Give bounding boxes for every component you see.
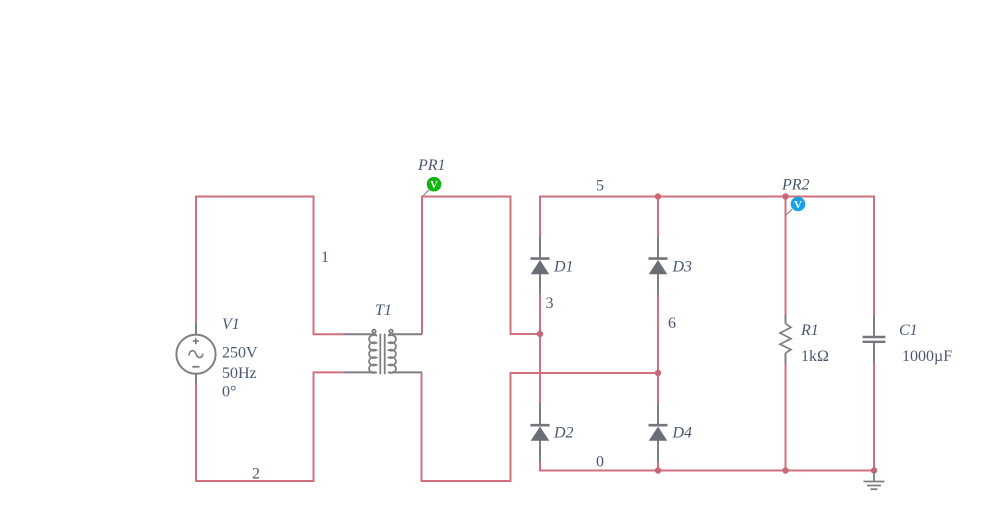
junction node 5 at D3 dot [655, 193, 661, 199]
wire R1 branch lower (785.5,363)-(785.5,470.5) [785, 363, 787, 471]
svg-text:1kΩ: 1kΩ [801, 348, 829, 365]
wire into node 3 (510.5,334)-(540,334) [510, 333, 541, 335]
svg-text:PR1: PR1 [417, 157, 446, 174]
diode D2 [531, 403, 550, 463]
wire secondary top horizontal (422,196.5)-(510.5,196.5) [421, 196, 511, 198]
wire top rail node 5 (540,196.5)-(874,196.5) [540, 196, 874, 198]
svg-text:D2: D2 [553, 425, 574, 442]
wire from transformer primary bottom (313.5,372.4)-(344,372.4) [313, 371, 345, 373]
svg-text:V: V [794, 199, 802, 211]
junction node 5 at R1 dot [782, 193, 788, 199]
svg-text:V1: V1 [222, 316, 240, 333]
svg-text:T1: T1 [375, 302, 392, 319]
wire secondary bottom vertical (421.5,372.4)-(421.5,481) [421, 372, 423, 482]
svg-text:5: 5 [596, 178, 604, 195]
capacitor C1 [863, 315, 886, 363]
wire primary loop right vertical (313.5,196.5)-(313.5,334.2) [313, 196, 315, 335]
svg-text:C1: C1 [899, 322, 918, 339]
wire D3 branch top (658,196.5)-(658,236) [657, 196, 659, 237]
diode D4 [649, 403, 668, 463]
svg-text:0: 0 [596, 454, 604, 471]
svg-text:D4: D4 [672, 425, 693, 442]
junction node 0 at R1 dot [782, 467, 788, 473]
wire secondary right vertical down (510.5,196.5)-(510.5,334) [510, 196, 512, 335]
svg-text:PR2: PR2 [781, 177, 810, 194]
ground [864, 471, 885, 490]
junction node 6 dot [655, 370, 661, 376]
wire secondary top lead vertical (422,196.5)-(422,334.2) [421, 196, 423, 335]
wire D3 to node6 (658,294)-(658,373) [657, 294, 659, 374]
wire secondary up vertical (510.5,481)-(510.5,373) [510, 373, 512, 482]
wire C1 branch lower (874,363)-(874,470.5) [873, 363, 875, 471]
diode D3 [649, 236, 668, 295]
svg-text:1: 1 [321, 249, 329, 266]
junction node 3 dot [537, 331, 543, 337]
svg-text:3: 3 [546, 295, 554, 312]
svg-text:6: 6 [668, 315, 676, 332]
transformer T1 [344, 330, 422, 375]
svg-text:D1: D1 [553, 259, 574, 276]
wire to transformer primary top (313.5,334.2)-(344,334.2) [313, 333, 345, 335]
wire primary loop top horizontal (196,196.5)-(313.5,196.5) [195, 196, 315, 198]
wire C1 branch upper (874,196.5)-(874,315) [873, 196, 875, 316]
probe PR1 [423, 177, 441, 196]
svg-text:250V: 250V [222, 345, 258, 362]
wire primary bottom right vertical (313.5,372.4)-(313.5,481) [313, 372, 315, 482]
resistor R1 [780, 315, 791, 364]
wire primary loop left vertical upper (196,196.5)-(196,323) [195, 196, 197, 324]
wire D1 branch top (540,196.5)-(540,236) [539, 196, 541, 237]
wire primary loop left vertical lower (196,383)-(196,481) [195, 383, 197, 482]
svg-text:V: V [430, 179, 438, 191]
wire bottom rail node 0 (540,470.5)-(874,470.5) [540, 470, 874, 472]
wire D2 to bottom rail (540,462)-(540,470.5) [539, 462, 541, 472]
junction node 0 at D4 dot [655, 467, 661, 473]
svg-text:D3: D3 [672, 259, 693, 276]
probe PR2 [786, 197, 805, 215]
wire node6 to D4 (658,373)-(658,402.5) [657, 373, 659, 403]
svg-text:50Hz: 50Hz [222, 365, 257, 382]
wire D1 to node3 (540,294)-(540,334) [539, 294, 541, 335]
voltage source V1 [176, 323, 215, 383]
wire node3 to D2 (540,334)-(540,402.5) [539, 334, 541, 403]
wire R1 branch upper (785.5,196.5)-(785.5,314.5) [785, 197, 787, 316]
svg-text:0°: 0° [222, 384, 236, 401]
diode D1 [531, 236, 550, 295]
wire primary loop bottom horizontal (196,481)-(313.5,481) [195, 480, 315, 482]
junction node 0 at ground dot [871, 467, 877, 473]
wire secondary bottom horizontal (421.5,481)-(510.5,481) [421, 480, 512, 482]
svg-text:1000µF: 1000µF [902, 348, 952, 365]
svg-text:2: 2 [252, 466, 260, 483]
wire to node 6 (510.5,373)-(658,373) [510, 372, 659, 374]
wire D4 to bottom rail (658,462)-(658,470.5) [657, 462, 659, 472]
svg-text:R1: R1 [800, 322, 819, 339]
